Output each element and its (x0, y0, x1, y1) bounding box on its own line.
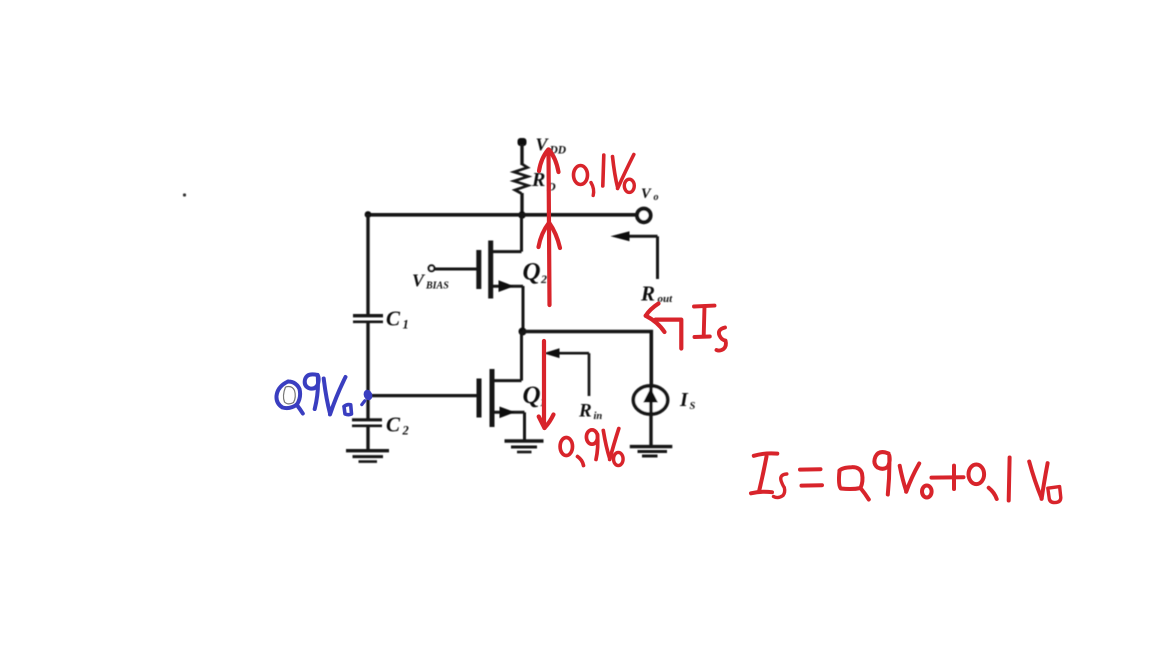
svg-text:I: I (679, 389, 689, 411)
wire: mid node to current source corner (523, 332, 652, 389)
arrow Rin (544, 348, 590, 396)
svg-text:2: 2 (540, 272, 547, 286)
wire: main output wire (368, 213, 637, 217)
red hand annotations (539, 150, 1061, 503)
label C1 (386, 307, 409, 332)
label Q2 (523, 259, 548, 287)
red text 0,1Vo (top) (574, 155, 635, 196)
faint pencil loop inside blue zero (283, 386, 295, 403)
svg-text:BIAS: BIAS (425, 281, 449, 292)
VDD terminal (518, 138, 527, 165)
current source IS (633, 384, 667, 445)
svg-text:in: in (594, 411, 603, 422)
svg-text:C: C (386, 413, 401, 437)
red label Is (hook) (694, 306, 726, 351)
label Vo (641, 186, 659, 203)
blue hand annotation 0.9Vo (276, 374, 373, 414)
speck dot (183, 193, 186, 196)
red equation Is = 0.9vo + 0.1Vo (751, 452, 1061, 503)
svg-text:2: 2 (402, 424, 409, 438)
svg-text:o: o (654, 192, 659, 203)
label Q1 (523, 382, 547, 409)
capacitor C1 (353, 316, 383, 322)
resistor RD (514, 164, 528, 194)
red arrow up (0.1Vo current) (539, 150, 561, 306)
red arrow down (0.9Vo at Q1) (539, 341, 554, 428)
wire: left vertical junction to C2 (366, 395, 369, 419)
ground (left, below C2) (346, 451, 389, 462)
svg-text:V: V (641, 186, 652, 202)
ground (below current source) (630, 447, 673, 456)
capacitor C2 (352, 420, 382, 426)
wire: gate wire of Q1 (junction to gate) (368, 394, 478, 397)
wire RD to output node (520, 193, 523, 216)
label VDD (536, 135, 567, 157)
terminal Vo (637, 209, 651, 223)
red text 0.9Vo (bottom) (560, 429, 623, 466)
svg-text:V: V (412, 271, 426, 291)
svg-text:R: R (640, 282, 655, 306)
label VBIAS (412, 271, 449, 292)
red arrow Is (hook, at Rout) (646, 304, 682, 349)
svg-text:Q: Q (523, 259, 541, 286)
svg-text:Q: Q (523, 382, 541, 409)
transistor Q1 (479, 332, 525, 441)
wire: left vertical branch upper (366, 214, 369, 314)
label IS (679, 389, 696, 412)
black scanned schematic (183, 135, 696, 462)
label Rin (578, 401, 602, 423)
label RD (531, 169, 556, 194)
arrow Rout (611, 231, 658, 279)
label Rout (640, 282, 673, 306)
node: mid junction dot (519, 328, 527, 336)
node: left top corner dot (365, 211, 372, 218)
wire: C2 to ground (366, 426, 369, 450)
svg-text:S: S (690, 401, 696, 412)
terminal VBIAS (429, 265, 435, 271)
svg-text:1: 1 (403, 318, 409, 332)
node: output node junction dot (518, 211, 526, 219)
wire: VBIAS to Q2 gate (435, 268, 478, 271)
blue node dot (362, 388, 374, 404)
ground (below Q1 source) (505, 441, 544, 452)
label C2 (386, 413, 409, 438)
svg-text:R: R (578, 401, 592, 422)
svg-text:C: C (386, 307, 401, 331)
transistor Q2 (479, 215, 523, 332)
wire: left vertical between C1 and junction (366, 322, 369, 396)
